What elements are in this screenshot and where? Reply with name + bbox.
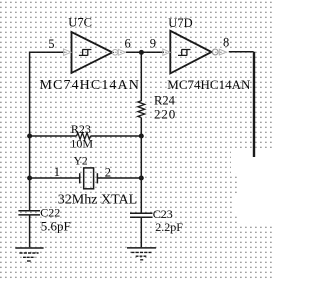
U7D output bubble xyxy=(212,49,218,55)
capacitor C22 top plate xyxy=(18,210,40,212)
inverter U7C triangle xyxy=(72,32,113,73)
wire: R23 net horizontal (right segment) xyxy=(91,135,142,137)
crystal Y2 right plate xyxy=(96,173,98,183)
svg-text:1: 1 xyxy=(54,165,60,179)
svg-text:MC74HC14AN: MC74HC14AN xyxy=(40,78,140,93)
wire: crystal net horizontal left segment xyxy=(30,177,80,179)
svg-text:C22: C22 xyxy=(40,205,60,219)
svg-text:5: 5 xyxy=(48,37,54,51)
svg-text:U7C: U7C xyxy=(68,15,92,29)
svg-text:MC74HC14AN: MC74HC14AN xyxy=(167,77,251,92)
wire: middle vertical rail x=141.3 top part xyxy=(140,52,142,101)
U7C schmitt hysteresis symbol xyxy=(79,49,92,55)
wire: net between pin6 and pin9 xyxy=(126,51,164,53)
blank scan patch (no grid dots) right side xyxy=(231,148,272,173)
wire: pin 5 net, left corner horizontal + left vertical rail xyxy=(30,52,65,211)
svg-text:10M: 10M xyxy=(70,137,93,151)
crystal Y2 body xyxy=(84,168,94,189)
U7C input arrow (hollow) xyxy=(64,49,71,56)
U7D schmitt hysteresis symbol xyxy=(178,49,191,55)
inverter U7D triangle xyxy=(170,31,211,74)
U7D input arrow (hollow) xyxy=(163,49,170,56)
wire: middle vertical rail lower part xyxy=(140,118,142,214)
svg-text:5.6pF: 5.6pF xyxy=(41,219,71,234)
wire: crystal net horizontal right segment xyxy=(97,177,141,179)
svg-text:Y2: Y2 xyxy=(74,156,88,168)
wire: R23 net horizontal at y=136 (left segment) xyxy=(30,135,77,137)
U7C output bubble xyxy=(112,50,118,56)
svg-text:6: 6 xyxy=(125,36,131,50)
ground under C22 xyxy=(15,248,43,261)
svg-text:R24: R24 xyxy=(154,93,176,107)
junction dot crystal right xyxy=(139,176,144,181)
U7C output arrow (hollow) xyxy=(118,49,125,55)
svg-text:U7D: U7D xyxy=(168,16,192,30)
junction dot at pin6/9/R24 xyxy=(139,50,144,55)
resistor R24 vertical zigzag xyxy=(138,101,145,118)
crystal Y2 left plate xyxy=(79,173,81,183)
svg-text:32Mhz XTAL: 32Mhz XTAL xyxy=(58,193,137,208)
svg-text:R23: R23 xyxy=(71,122,91,136)
svg-text:2.2pF: 2.2pF xyxy=(155,220,183,234)
capacitor C23 bottom plate xyxy=(130,216,153,218)
junction dot crystal left xyxy=(27,176,32,181)
resistor R23 zigzag xyxy=(77,133,91,140)
wire: pin 8 net vertical (right rail) xyxy=(253,52,255,157)
svg-text:220: 220 xyxy=(154,107,176,122)
capacitor C22 bottom plate xyxy=(18,214,40,216)
svg-text:9: 9 xyxy=(150,36,156,50)
wire: C23 to ground xyxy=(140,217,142,247)
svg-text:8: 8 xyxy=(223,36,229,50)
wire: C22 to ground xyxy=(29,215,31,247)
svg-text:2: 2 xyxy=(105,165,111,179)
U7D output arrow (hollow) xyxy=(219,49,226,55)
junction dot R23 right xyxy=(139,134,144,139)
ground under C23 xyxy=(127,248,156,260)
capacitor C23 top plate xyxy=(130,212,153,214)
wire: pin 8 net horizontal xyxy=(229,51,254,53)
junction dot R23 left xyxy=(27,134,32,139)
